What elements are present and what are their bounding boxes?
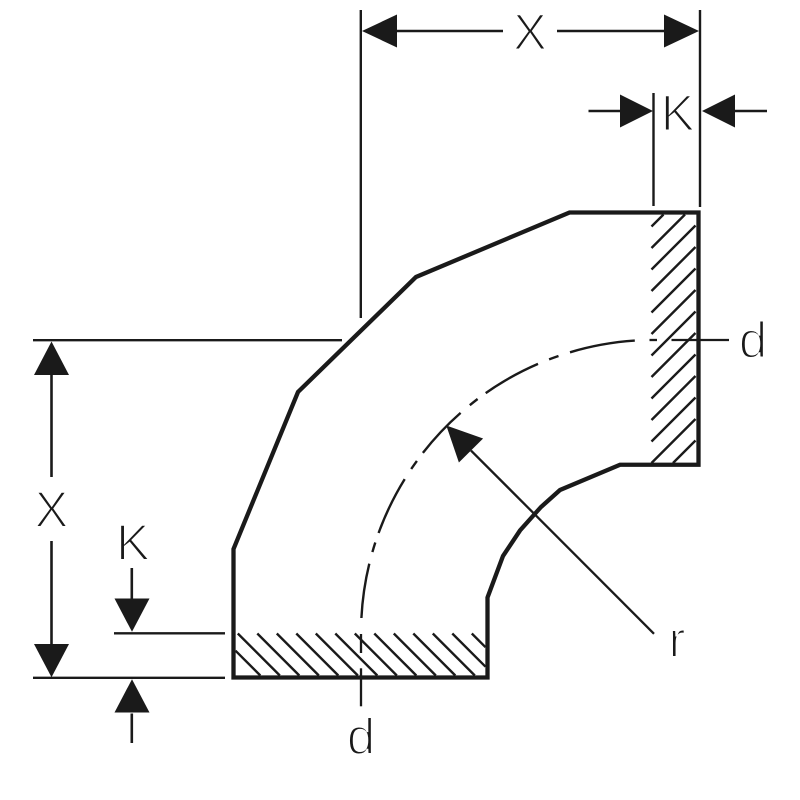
- svg-text:K: K: [661, 85, 695, 142]
- svg-text:X: X: [513, 4, 547, 61]
- svg-text:d: d: [347, 708, 375, 765]
- svg-text:d: d: [739, 312, 767, 369]
- svg-text:r: r: [669, 611, 686, 668]
- svg-text:K: K: [116, 514, 150, 571]
- svg-text:X: X: [34, 481, 68, 538]
